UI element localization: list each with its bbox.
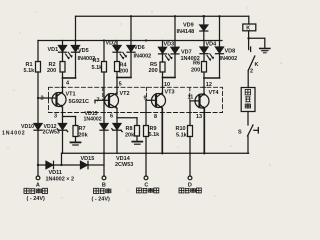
wire riser channel1 [75, 16, 77, 40]
wire VT4 emitter [203, 109, 205, 154]
svg-text:VD5: VD5 [78, 48, 89, 54]
wire column B [103, 41, 105, 177]
wire ch2 junction bar [117, 77, 131, 79]
wire buzzer to switch [247, 112, 249, 126]
svg-text:2CW53: 2CW53 [43, 130, 60, 136]
svg-text:11: 11 [188, 94, 194, 100]
svg-text:10: 10 [164, 82, 170, 88]
svg-text:C: C [144, 182, 148, 188]
svg-text:8: 8 [154, 114, 157, 120]
wire VT1 base [38, 97, 57, 99]
diode VD7 [171, 41, 179, 78]
svg-text:VD8: VD8 [225, 49, 236, 55]
wire ch1 junction bar [63, 77, 76, 79]
svg-text:A: A [36, 182, 40, 188]
zener VD12 [57, 124, 67, 154]
svg-text:6: 6 [110, 113, 113, 119]
svg-text:13: 13 [196, 114, 202, 120]
transistor VT4 [195, 93, 209, 109]
wire R7 to ground [75, 137, 77, 142]
svg-text:VD9: VD9 [183, 23, 194, 29]
svg-text:VT3: VT3 [165, 90, 175, 96]
node dots [37, 15, 250, 166]
svg-text:3: 3 [54, 113, 57, 119]
svg-text:9: 9 [144, 95, 147, 101]
resistor R3 [102, 62, 107, 73]
resistor R4 [115, 62, 120, 72]
svg-text:1N4002: 1N4002 [84, 117, 102, 123]
dashed module box [49, 87, 223, 112]
svg-text:1N4002 × 2: 1N4002 × 2 [46, 177, 75, 183]
resistor R6 [202, 62, 207, 73]
zener VD14 [112, 124, 122, 154]
wire R5 to junction [162, 72, 164, 78]
svg-text:20k: 20k [79, 133, 89, 139]
wire column A left [37, 41, 39, 177]
wire to ground right [249, 38, 265, 48]
svg-text:K: K [255, 62, 259, 68]
resistor R7 [73, 126, 78, 137]
svg-text:200: 200 [119, 69, 128, 75]
wire riser channel4 [219, 16, 221, 40]
terminal A [36, 176, 40, 180]
svg-text:2: 2 [41, 96, 44, 102]
svg-text:R3: R3 [93, 58, 100, 64]
pin ticks [49, 87, 206, 112]
svg-text:VD2: VD2 [106, 40, 117, 46]
wire battery line [38, 164, 104, 166]
svg-text:200: 200 [149, 68, 158, 74]
diode VD13 [100, 124, 108, 131]
svg-text:( - 24V): ( - 24V) [27, 196, 46, 202]
switch S [248, 125, 259, 153]
wire ch3 junction bar [163, 77, 176, 79]
terminal C [144, 176, 148, 180]
svg-text:R8: R8 [126, 126, 133, 132]
transistor VT3 [152, 93, 166, 109]
label buzzer [245, 90, 250, 109]
buzzer box [241, 88, 255, 112]
svg-text:5.1k: 5.1k [149, 132, 161, 138]
svg-text:2: 2 [250, 69, 253, 75]
wire R4 to junction [116, 72, 118, 78]
svg-text:VT4: VT4 [209, 90, 220, 96]
svg-text:5.1k: 5.1k [92, 65, 104, 71]
resistor R1 [36, 62, 41, 73]
svg-text:VD11: VD11 [49, 170, 62, 176]
wire VT2 base [95, 100, 109, 103]
wire riser channel3 [174, 16, 176, 40]
wire ch4 collector drop pin12 [203, 78, 205, 95]
svg-text:5G921C: 5G921C [69, 99, 90, 105]
ground for R7 [71, 142, 81, 145]
svg-text:VD15: VD15 [81, 156, 95, 162]
terminal B [102, 176, 106, 180]
led VD1 [59, 41, 73, 62]
svg-text:VD3: VD3 [164, 42, 175, 48]
svg-text:VD1: VD1 [48, 47, 59, 53]
diode VD5 [72, 41, 80, 79]
label working supply [24, 188, 48, 193]
svg-text:5.1k: 5.1k [24, 68, 36, 74]
wire bottom bus [62, 152, 249, 154]
terminal D [188, 176, 192, 180]
wire R8 to ground [136, 136, 138, 141]
wire ch3 collector drop pin10 [162, 78, 164, 95]
wire VT2 emitter [116, 108, 118, 123]
wire R6 to junction [203, 72, 205, 78]
svg-text:2CW53: 2CW53 [115, 162, 133, 168]
relay coil K [243, 16, 256, 38]
resistor R10 [188, 126, 193, 137]
dashed divider ch3 ch4 [189, 87, 191, 100]
label battery [94, 188, 111, 193]
wire VT3 base [146, 99, 156, 101]
diode VD8 [216, 41, 224, 79]
wire riser channel2 [130, 16, 132, 40]
diode VD11 [46, 161, 54, 168]
wire bus left drop [61, 153, 63, 165]
wire ch4 junction bar [204, 77, 220, 79]
relay contact K pins 1 2 [248, 38, 255, 87]
wire column C through R9 [145, 100, 147, 176]
resistor R5 [160, 62, 165, 72]
led VD4 [200, 41, 214, 62]
svg-text:VD7: VD7 [181, 49, 192, 55]
resistor R9 [144, 126, 149, 137]
wire VT3 emitter [161, 108, 163, 153]
scan speckle noise [8, 8, 289, 199]
dashed divider ch1 ch2 [102, 87, 104, 100]
ground for R8 [132, 142, 142, 145]
svg-text:K: K [246, 26, 250, 32]
svg-text:12: 12 [206, 82, 212, 88]
svg-text:VT2: VT2 [120, 91, 130, 97]
svg-text:1N4002: 1N4002 [2, 131, 26, 137]
svg-text:( - 24V): ( - 24V) [92, 197, 111, 203]
svg-text:R6: R6 [193, 61, 200, 67]
wire R2 to junction [62, 72, 64, 78]
wire column D through R10 [189, 101, 191, 176]
svg-text:R10: R10 [176, 126, 186, 132]
svg-text:IN4148: IN4148 [177, 29, 195, 35]
transistor VT1 [52, 92, 66, 108]
svg-text:VD6: VD6 [134, 45, 145, 51]
wire top bus [76, 15, 249, 17]
svg-text:200: 200 [191, 68, 200, 74]
label signal alarm [137, 188, 159, 193]
svg-text:IN4002: IN4002 [134, 54, 152, 60]
svg-text:VD4: VD4 [206, 41, 218, 47]
wire VT4 base [190, 100, 200, 102]
wire R7 branch [63, 117, 76, 126]
label fuse alarm [179, 188, 201, 193]
svg-text:20k: 20k [125, 133, 135, 139]
svg-text:5: 5 [119, 82, 122, 88]
svg-text:5.1k: 5.1k [176, 133, 188, 139]
diode VD10 [34, 124, 42, 131]
transistor VT2 [105, 93, 119, 109]
wire R8 branch [117, 118, 137, 126]
resistor R2 [60, 62, 65, 73]
led VD2 [113, 41, 127, 62]
ground top right [260, 49, 270, 53]
svg-text:IN4002: IN4002 [220, 56, 238, 62]
svg-text:VD10: VD10 [21, 124, 34, 130]
svg-text:S: S [238, 130, 242, 136]
wire rail [38, 40, 222, 42]
diode VD6 [127, 41, 135, 78]
diode VD9 [200, 16, 208, 40]
led VD3 [159, 41, 173, 63]
svg-text:B: B [102, 182, 106, 188]
svg-text:R7: R7 [79, 126, 86, 132]
wire ch1 collector drop pin4 [62, 78, 64, 94]
svg-text:VT1: VT1 [66, 92, 76, 98]
wire ch2 collector drop pin5 [116, 78, 118, 95]
svg-text:D: D [188, 182, 192, 188]
resistor R8 [135, 126, 140, 137]
svg-text:7: 7 [97, 98, 100, 104]
dashed divider ch2 ch3 [146, 87, 148, 100]
wire VT1 emitter to junction [62, 107, 64, 123]
svg-text:200: 200 [47, 68, 56, 74]
diode VD15 [81, 161, 89, 168]
